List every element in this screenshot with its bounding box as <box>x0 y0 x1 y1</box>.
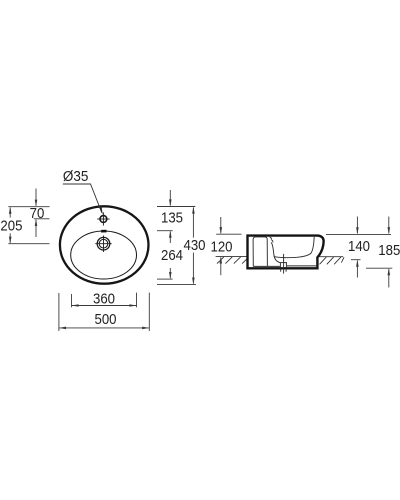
svg-text:185: 185 <box>378 241 400 258</box>
svg-text:360: 360 <box>93 290 115 307</box>
svg-text:140: 140 <box>348 237 370 254</box>
svg-text:500: 500 <box>95 310 117 327</box>
svg-text:430: 430 <box>184 236 206 253</box>
svg-text:135: 135 <box>161 209 183 226</box>
svg-text:Ø35: Ø35 <box>63 168 89 185</box>
svg-text:120: 120 <box>211 238 233 255</box>
svg-text:264: 264 <box>161 246 183 263</box>
svg-text:205: 205 <box>0 217 22 234</box>
svg-text:70: 70 <box>30 204 45 221</box>
